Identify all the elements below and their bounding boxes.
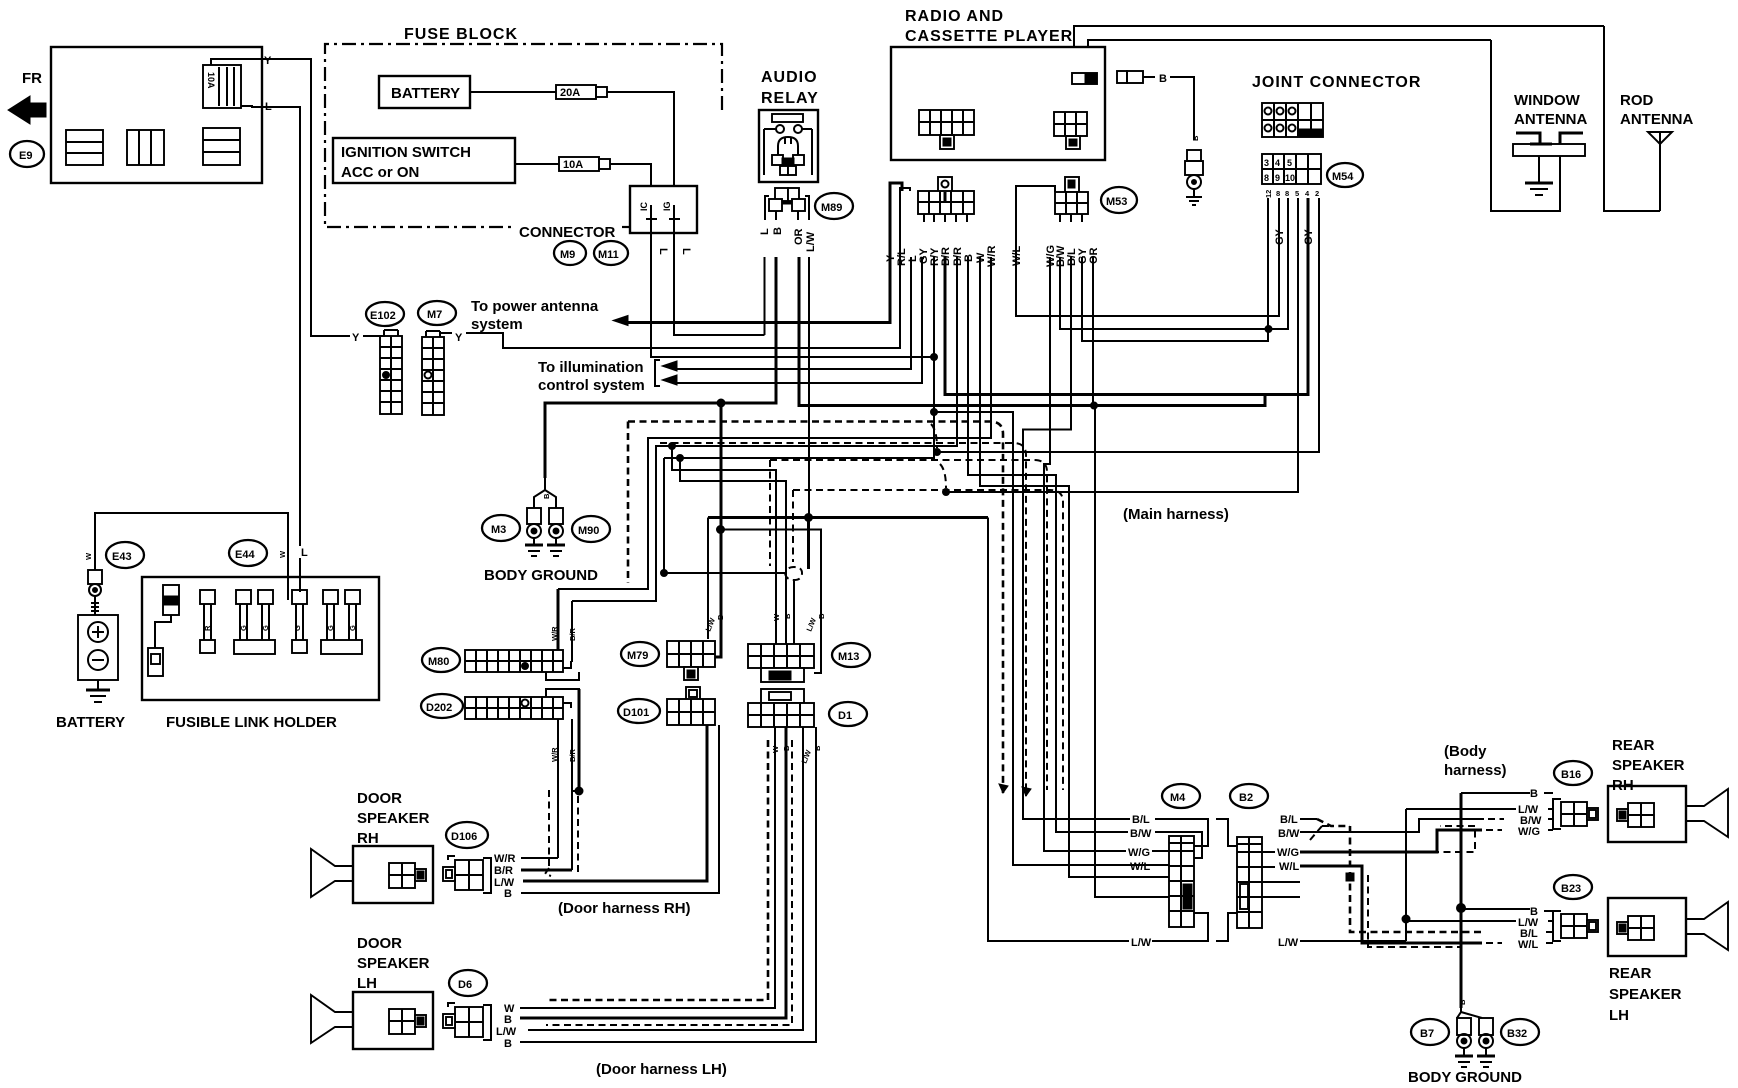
svg-text:M13: M13	[838, 651, 859, 663]
M13 connector grid	[748, 644, 814, 682]
connector D106 oval	[446, 822, 488, 848]
svg-text:5: 5	[1287, 158, 1292, 168]
M7 strip connector	[422, 331, 444, 415]
SECTION: rear area	[1123, 506, 1728, 1086]
svg-text:W/G: W/G	[1518, 826, 1540, 838]
wire window antenna enclosure	[1491, 40, 1560, 211]
svg-text:SPEAKER: SPEAKER	[1612, 757, 1685, 774]
wire D202 to D106 B/R	[571, 719, 573, 870]
D101 connector grid	[667, 687, 715, 725]
svg-text:B32: B32	[1507, 1028, 1527, 1040]
svg-text:4: 4	[1275, 158, 1280, 168]
svg-text:Y: Y	[264, 55, 272, 67]
svg-text:9: 9	[1275, 173, 1280, 183]
svg-text:CONNECTOR: CONNECTOR	[519, 224, 616, 241]
relay box	[759, 110, 818, 182]
rod antenna symbol	[1648, 132, 1672, 211]
svg-text:BODY GROUND: BODY GROUND	[1408, 1069, 1522, 1086]
bracket from fuse to Y pin	[211, 59, 262, 65]
M80 strip connector	[465, 650, 579, 680]
door speaker RH symbol	[311, 846, 433, 903]
svg-text:B: B	[783, 613, 792, 619]
relay coil body	[778, 137, 798, 165]
svg-text:E44: E44	[235, 549, 255, 561]
wire left loop to M13 B	[680, 458, 786, 644]
svg-text:L: L	[657, 248, 669, 255]
svg-text:D106: D106	[451, 831, 477, 843]
SECTION: joint connector and antennas	[1074, 26, 1693, 211]
svg-text:W/L: W/L	[1279, 861, 1299, 873]
svg-text:B/W: B/W	[1130, 828, 1152, 840]
svg-text:M90: M90	[578, 525, 599, 537]
svg-text:LH: LH	[1609, 1007, 1629, 1024]
svg-text:E43: E43	[112, 551, 132, 563]
wire relay L/W down	[808, 257, 810, 518]
fusible link G2	[236, 590, 251, 640]
connector cells bottom row 3	[203, 128, 240, 165]
svg-text:B: B	[504, 888, 512, 900]
radio internal connector right	[1054, 112, 1087, 149]
D202 strip connector	[465, 689, 579, 719]
svg-text:W/L: W/L	[1130, 861, 1150, 873]
svg-text:AUDIO: AUDIO	[761, 69, 818, 86]
connector M13 oval	[832, 643, 870, 667]
svg-text:DOOR: DOOR	[357, 790, 402, 807]
svg-text:8: 8	[1264, 173, 1269, 183]
B2 left bracket bottom	[1216, 913, 1237, 941]
B2 right small stubs	[1262, 851, 1275, 853]
wire radio W/R to M80	[558, 257, 991, 589]
ground symbol antenna plug	[1193, 189, 1195, 197]
rear dashed envelope LH pair	[1368, 875, 1462, 947]
svg-text:5: 5	[1295, 189, 1299, 198]
rear speaker LH box	[1608, 898, 1728, 956]
connector M7 oval	[418, 301, 456, 325]
wire D106 B to D101	[521, 725, 719, 893]
fusible link G6	[321, 590, 362, 654]
svg-text:W: W	[84, 552, 93, 560]
svg-text:Y: Y	[352, 332, 360, 344]
svg-text:M53: M53	[1106, 196, 1127, 208]
wire radio R/Y to M4 W/L	[664, 257, 934, 458]
rear dashed envelope RH pair	[1322, 825, 1334, 827]
svg-text:ACC or ON: ACC or ON	[341, 164, 419, 181]
SECTION: center connectors	[421, 613, 870, 765]
wire illumination 1 to radio L	[677, 257, 911, 369]
E102 strip connector	[380, 330, 402, 414]
thick stub from L/W dot to shield loop	[807, 518, 810, 570]
svg-text:(Body: (Body	[1444, 743, 1487, 760]
wire D106 L/W to D101	[523, 725, 707, 881]
svg-text:DOOR: DOOR	[357, 935, 402, 952]
connector M54 oval	[1327, 163, 1363, 187]
svg-text:G: G	[261, 625, 270, 631]
connector M53 oval	[1101, 187, 1137, 213]
svg-text:20A: 20A	[560, 87, 580, 99]
connector cells bottom row 1	[66, 130, 103, 165]
svg-text:B7: B7	[1420, 1028, 1434, 1040]
connector B2 oval	[1230, 784, 1268, 808]
svg-text:B2: B2	[1239, 792, 1253, 804]
wire E9 Y to E102	[262, 59, 350, 336]
svg-text:OR: OR	[793, 228, 805, 245]
svg-text:B23: B23	[1561, 883, 1581, 895]
wire radio B to M4 B/W	[968, 257, 1128, 832]
wire D1 B2 to D6	[520, 727, 816, 1042]
SECTION: top-left E9 block	[8, 47, 272, 183]
connector E44 oval	[229, 540, 267, 566]
svg-text:BODY GROUND: BODY GROUND	[484, 567, 598, 584]
svg-text:REAR: REAR	[1612, 737, 1655, 754]
svg-text:M80: M80	[428, 656, 449, 668]
wire M53 OR branch into M4	[1095, 406, 1169, 898]
rear speaker LH B/L dashed route	[1300, 818, 1317, 820]
wire D1 B to D6	[520, 727, 786, 1018]
rear speaker RH W/G	[1300, 830, 1482, 852]
svg-text:B: B	[504, 1038, 512, 1050]
svg-text:(Main harness): (Main harness)	[1123, 506, 1229, 523]
svg-text:D1: D1	[838, 710, 852, 722]
svg-text:system: system	[471, 316, 523, 333]
svg-text:L/W: L/W	[496, 1026, 517, 1038]
rear speaker RH B/W	[1300, 819, 1484, 832]
svg-text:M7: M7	[427, 309, 442, 321]
wire radio B/R to joint 5	[945, 198, 1308, 395]
arrow to power antenna	[613, 316, 628, 326]
svg-text:SPEAKER: SPEAKER	[357, 955, 430, 972]
wire left loop to M13 W	[672, 446, 776, 644]
svg-text:10A: 10A	[206, 72, 216, 89]
SECTION: fuse block	[325, 26, 722, 265]
svg-text:SPEAKER: SPEAKER	[1609, 986, 1682, 1003]
svg-text:ANTENNA: ANTENNA	[1620, 111, 1693, 128]
svg-text:ROD: ROD	[1620, 92, 1654, 109]
svg-text:JOINT CONNECTOR: JOINT CONNECTOR	[1252, 74, 1421, 91]
radio harness stubs left	[923, 214, 925, 222]
connector cells bottom row 2	[127, 130, 164, 165]
svg-text:G: G	[348, 625, 357, 631]
svg-text:8: 8	[1276, 189, 1280, 198]
bracket illumination	[655, 360, 660, 386]
wire antenna feed	[1170, 77, 1194, 140]
svg-text:FR: FR	[22, 70, 42, 87]
wire M79 B elbow	[715, 656, 721, 658]
svg-text:IGNITION SWITCH: IGNITION SWITCH	[341, 144, 471, 161]
SECTION: door speakers	[311, 790, 727, 1078]
connector M89 oval	[815, 193, 853, 219]
wire battery to fusible link loop	[95, 513, 288, 577]
svg-text:M11: M11	[598, 249, 619, 261]
connector D101 oval	[618, 699, 660, 723]
svg-text:REAR: REAR	[1609, 965, 1652, 982]
shield drain hook jw6	[934, 449, 941, 456]
svg-text:BATTERY: BATTERY	[56, 714, 125, 731]
connector M80 oval	[422, 648, 460, 672]
junction dot B branch	[717, 526, 725, 534]
radio harness connector left grid	[918, 191, 974, 214]
antenna feed connector at radio	[1117, 71, 1127, 83]
connector E9 oval	[10, 141, 44, 167]
svg-text:L: L	[759, 228, 771, 235]
fusible link G5	[323, 590, 338, 640]
connector M9 oval	[554, 241, 586, 265]
dashed shield door LH	[546, 740, 768, 1000]
wire power antenna line to radio Y	[628, 183, 902, 323]
wire D1 L/W to D6	[528, 727, 803, 1030]
wire L/W to M79 top	[707, 518, 709, 640]
M79 connector grid	[667, 641, 715, 680]
D1 connector grid	[748, 689, 814, 727]
fusible link G4	[292, 590, 307, 653]
body ground terminals M3 M90	[525, 478, 565, 556]
relay top bar	[772, 114, 803, 122]
svg-text:B: B	[1191, 135, 1200, 141]
wire D106 B/R	[521, 869, 572, 872]
svg-text:B: B	[813, 745, 822, 751]
shield loop above M13	[785, 567, 802, 580]
svg-text:B/L: B/L	[1132, 814, 1150, 826]
rear speaker LH connector	[1553, 911, 1598, 941]
rear speaker LH B	[1461, 908, 1530, 910]
svg-text:IC: IC	[639, 201, 649, 211]
svg-text:10: 10	[1285, 173, 1295, 183]
svg-text:E9: E9	[19, 150, 32, 162]
wire fuse IC to radio R/Y	[651, 244, 934, 357]
connector D6 oval	[449, 970, 487, 996]
wire radio to window antenna	[1088, 40, 1491, 47]
svg-text:harness): harness)	[1444, 762, 1507, 779]
connector E102 oval	[366, 302, 404, 326]
svg-text:(Door harness RH): (Door harness RH)	[558, 900, 691, 917]
svg-text:D6: D6	[458, 979, 472, 991]
svg-text:M9: M9	[560, 249, 575, 261]
connector B32 oval	[1501, 1019, 1539, 1045]
wire radio W to M4 mid	[980, 257, 1169, 877]
svg-text:control system: control system	[538, 377, 645, 394]
radio harness stubs right	[1059, 214, 1061, 222]
svg-text:CASSETTE PLAYER: CASSETTE PLAYER	[905, 28, 1073, 45]
svg-text:L: L	[680, 248, 692, 255]
radio harness connector pin right	[1065, 177, 1079, 192]
svg-text:L/W: L/W	[1278, 937, 1299, 949]
SECTION: audio relay	[759, 69, 853, 252]
wire 20A fuse to connector pin IG	[607, 92, 674, 186]
wire D202 top step thick	[578, 689, 581, 790]
svg-text:M4: M4	[1170, 792, 1186, 804]
wire joint 4 long	[946, 198, 1298, 492]
connector M4 oval	[1162, 784, 1200, 808]
svg-text:2: 2	[1315, 189, 1319, 198]
svg-text:D202: D202	[426, 702, 452, 714]
connector D1 oval	[829, 702, 867, 726]
rear speaker RH connector	[1553, 799, 1598, 829]
connector B16 oval	[1554, 761, 1592, 785]
svg-text:RADIO AND: RADIO AND	[905, 8, 1004, 25]
svg-text:12: 12	[1264, 190, 1273, 198]
fusible link 1 with band	[148, 585, 179, 676]
wire body ground B bus	[545, 257, 776, 478]
M4 strip connector	[1169, 836, 1194, 927]
radio harness connector right grid	[1055, 192, 1088, 214]
SECTION: radio	[885, 8, 1137, 267]
connector B23 oval	[1554, 875, 1592, 899]
svg-text:LH: LH	[357, 975, 377, 992]
wire radio to rod antenna	[1074, 26, 1604, 47]
window antenna element	[1513, 133, 1585, 183]
fuse 10A	[515, 163, 559, 165]
D106 connector	[443, 856, 491, 893]
svg-text:E102: E102	[370, 310, 396, 322]
junction dot at joint 1	[1265, 326, 1272, 333]
fusible link holder box	[142, 577, 379, 700]
svg-text:W: W	[278, 550, 287, 558]
svg-text:W/G: W/G	[1128, 847, 1150, 859]
svg-text:3: 3	[1264, 158, 1269, 168]
pin stub lines through connector	[650, 205, 652, 244]
connector M3 oval	[482, 515, 520, 541]
svg-text:8: 8	[1285, 189, 1289, 198]
svg-text:GY: GY	[1274, 228, 1286, 245]
svg-text:WINDOW: WINDOW	[1514, 92, 1581, 109]
wire M53 W/L to joint 2	[1016, 186, 1279, 316]
wire M53 GY to joint 1	[1082, 198, 1268, 341]
svg-text:L/W: L/W	[805, 231, 817, 252]
wire M53 B/L to M4 B/L	[1023, 257, 1130, 819]
fusible link R	[200, 590, 215, 653]
wire fuse IG to audio relay L	[674, 244, 755, 335]
rear speaker RH box	[1608, 786, 1728, 842]
svg-text:IG: IG	[662, 201, 672, 211]
svg-text:(Door harness LH): (Door harness LH)	[596, 1061, 727, 1078]
box IGNITION SWITCH ACC or ON	[333, 138, 515, 183]
shield drain hook jw4	[943, 489, 950, 496]
connector M79 oval	[621, 642, 659, 666]
svg-text:To power antenna: To power antenna	[471, 298, 599, 315]
fuse 10A holder	[203, 65, 241, 108]
antenna plug inline connector	[1187, 150, 1201, 161]
connector E43 oval	[106, 542, 144, 568]
svg-text:B/R: B/R	[494, 865, 513, 877]
wire 10A fuse to connector pin IC	[610, 164, 651, 186]
radio box	[891, 47, 1105, 160]
svg-text:L: L	[301, 547, 308, 559]
svg-text:G: G	[239, 625, 248, 631]
wire D106 W/R	[521, 857, 558, 859]
rear speaker RH B	[1461, 792, 1530, 794]
relay contact squares	[772, 155, 783, 165]
door speaker LH symbol	[311, 992, 433, 1049]
svg-text:D101: D101	[623, 707, 649, 719]
junction dot L/W relay	[805, 514, 813, 522]
dashed shield main harness 2	[660, 443, 1026, 796]
svg-text:RH: RH	[357, 830, 379, 847]
wire joint 6 long	[937, 198, 1319, 452]
junction dot B bus	[717, 399, 725, 407]
svg-text:L/W: L/W	[1131, 937, 1152, 949]
svg-text:B: B	[504, 1014, 512, 1026]
box CONNECTOR	[630, 186, 697, 233]
B2 strip connector	[1237, 837, 1262, 928]
arrow illumination 1	[662, 361, 677, 371]
relay contact circles	[776, 125, 784, 133]
svg-text:B/L: B/L	[1280, 814, 1298, 826]
dashed shield main harness 4	[793, 490, 1063, 790]
wire B to M79	[715, 403, 721, 657]
fuse block E9 outline	[51, 47, 262, 183]
svg-text:BATTERY: BATTERY	[391, 85, 460, 102]
fuse block dash-dot border	[325, 44, 722, 227]
radio switch symbol	[1072, 73, 1097, 84]
fusible link G3	[234, 590, 275, 654]
joint connector block B numbered	[1262, 154, 1321, 184]
wire illumination 2 to radio GY	[677, 257, 922, 383]
fuse 20A	[470, 91, 556, 93]
svg-text:RELAY: RELAY	[761, 90, 819, 107]
rear body ground terminals	[1455, 1008, 1495, 1067]
svg-text:M3: M3	[491, 524, 506, 536]
svg-text:FUSIBLE LINK HOLDER: FUSIBLE LINK HOLDER	[166, 714, 337, 731]
wire E9 L down to fusible link holder	[262, 107, 300, 546]
svg-text:10A: 10A	[563, 159, 583, 171]
joint connector block A	[1262, 103, 1323, 137]
dashed shield door RH	[548, 790, 550, 868]
svg-text:B16: B16	[1561, 769, 1581, 781]
rear speaker LH W/L	[1300, 866, 1482, 943]
radio harness connector pin left	[938, 177, 952, 192]
wire L/W net down to M4 L/W	[988, 518, 1129, 942]
svg-text:W/G: W/G	[1277, 847, 1299, 859]
wire W/R B/R above M80	[557, 589, 560, 650]
wire D1 W to D6	[520, 727, 775, 1008]
wire left loop to M13 via shield loop	[664, 458, 785, 573]
B2 left bracket top	[1216, 819, 1237, 846]
battery terminal E43	[88, 570, 102, 584]
arrow illumination 2	[662, 375, 677, 385]
arrow FR direction	[8, 96, 46, 124]
wire rod antenna enclosure	[1604, 26, 1660, 211]
connector M90 oval	[572, 516, 610, 542]
radio internal connector left	[919, 110, 974, 149]
wire M53 OR joins bus	[1092, 257, 1094, 406]
relay harness connector	[775, 188, 788, 201]
svg-text:M89: M89	[821, 202, 842, 214]
svg-text:Y: Y	[455, 332, 463, 344]
svg-text:B: B	[1530, 788, 1538, 800]
dashed shield main harness 3	[770, 460, 1047, 790]
rear B ground wire	[1460, 793, 1463, 1008]
svg-text:ANTENNA: ANTENNA	[1514, 111, 1587, 128]
svg-text:G: G	[326, 625, 335, 631]
wire B branch M13	[720, 530, 821, 674]
svg-text:R: R	[203, 625, 212, 631]
svg-text:M79: M79	[627, 650, 648, 662]
SECTION: left column battery fusible	[56, 298, 677, 731]
box BATTERY	[379, 76, 470, 108]
svg-text:B: B	[1159, 73, 1167, 85]
wire M53 W/G to M4 W/G	[1044, 257, 1126, 851]
wire relay OR to joint connector	[799, 257, 1265, 406]
battery symbol	[78, 596, 118, 702]
wire radio B/R2 to door tweeter loop	[572, 257, 957, 601]
dashed shield main harness 1	[628, 422, 1003, 794]
wire D202 to D106 W/R	[557, 719, 559, 858]
ground symbol window antenna	[1525, 182, 1553, 185]
svg-text:W/L: W/L	[1518, 939, 1538, 951]
connector M11 oval	[594, 241, 628, 265]
svg-text:G: G	[293, 625, 302, 631]
joint connector wire stubs down	[1267, 198, 1269, 341]
svg-text:B/W: B/W	[1278, 828, 1300, 840]
